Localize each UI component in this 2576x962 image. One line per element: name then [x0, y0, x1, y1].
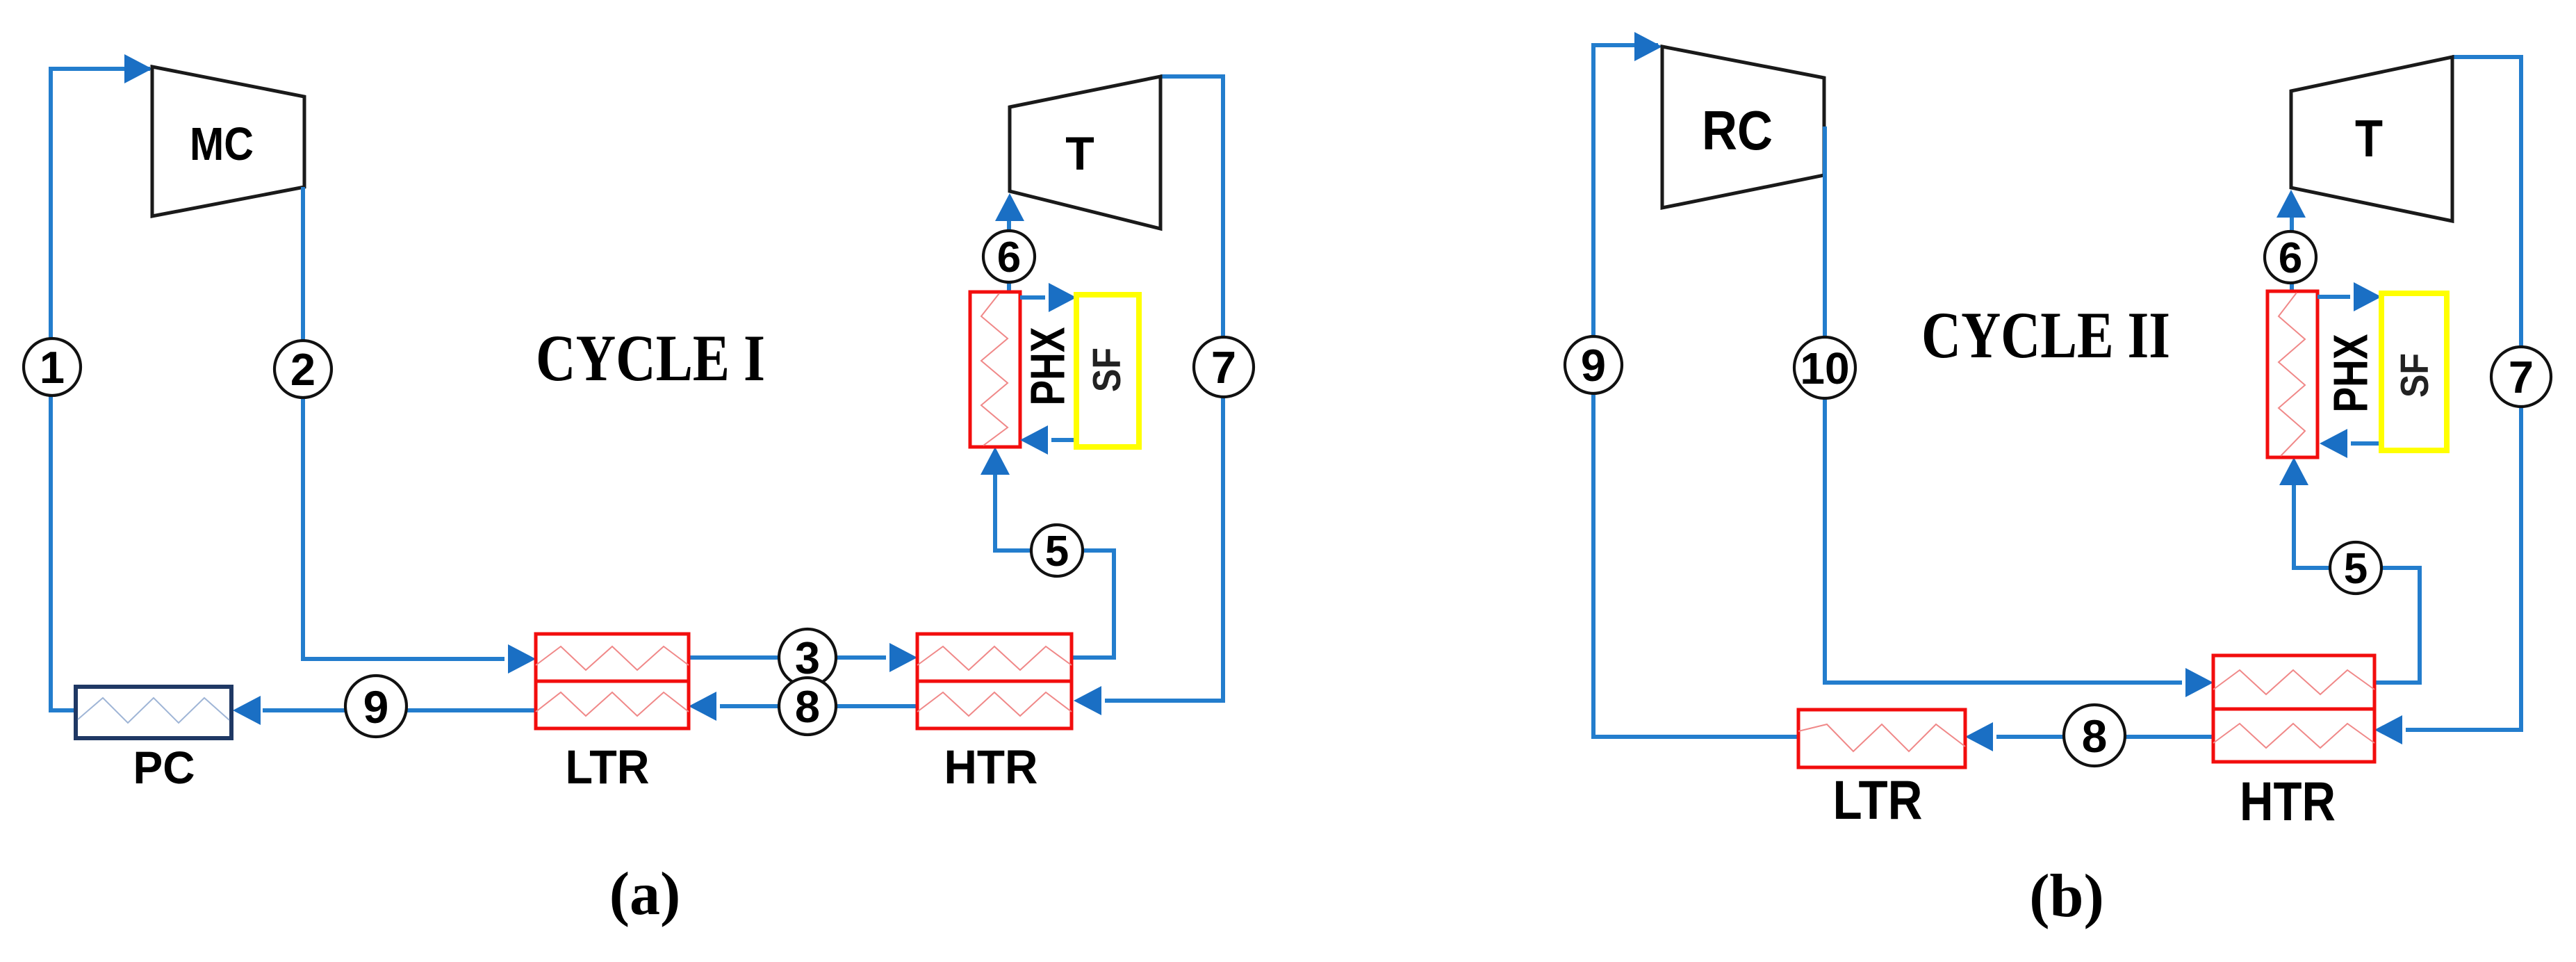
arrowhead into turbine	[995, 193, 1024, 221]
turbine T	[2291, 57, 2452, 221]
arrowhead into HTR	[889, 643, 917, 672]
node 5	[2330, 542, 2381, 594]
svg-text:3: 3	[795, 633, 820, 683]
wire HTR to LTR (stream 8)	[1996, 735, 2213, 739]
arrowhead into HTR left	[2185, 668, 2213, 697]
arrowhead into LTR right	[1965, 722, 1993, 751]
arrowhead into MC	[124, 54, 152, 83]
turbine T	[1010, 76, 1160, 229]
LTR coil	[1798, 724, 1965, 751]
node 7	[2491, 347, 2551, 407]
wire SF to PHX (return)	[1051, 438, 1076, 442]
HTR lower shell	[917, 681, 1072, 728]
precooler PC	[76, 687, 231, 738]
wire turbine to HTR (stream 7)	[2406, 57, 2521, 730]
arrowhead into PHX bottom	[2279, 457, 2308, 485]
svg-text:MC: MC	[190, 118, 254, 170]
svg-text:7: 7	[2509, 352, 2534, 402]
svg-text:PHX: PHX	[2323, 334, 2377, 412]
HTR bottom coil	[2213, 724, 2374, 748]
arrowhead into PC right	[233, 696, 261, 725]
svg-text:(a): (a)	[609, 861, 681, 928]
node 7	[1194, 337, 1254, 397]
arrowhead into PHX bottom	[981, 447, 1010, 475]
HTR top coil	[2213, 670, 2374, 694]
recuperator HTR	[2213, 655, 2374, 709]
svg-text:LTR: LTR	[566, 740, 650, 794]
wire LTR to PC (stream 9)	[263, 708, 536, 712]
svg-text:6: 6	[997, 234, 1021, 282]
arrowhead into PHX right	[2320, 429, 2347, 458]
svg-text:2: 2	[290, 344, 315, 395]
node 1	[24, 339, 81, 396]
svg-text:10: 10	[1800, 343, 1849, 393]
node 8	[779, 678, 836, 735]
arrowhead into turbine	[2276, 190, 2306, 218]
wire PHX to SF (hot out)	[1020, 295, 1045, 300]
arrowhead into HTR right	[1074, 686, 1101, 715]
wire RC outlet to HTR (stream 10)	[1825, 127, 2182, 683]
primary heat exchanger PHX	[970, 292, 1020, 447]
svg-text:SF: SF	[1085, 348, 1129, 392]
svg-text:8: 8	[2082, 710, 2108, 762]
wire PHX to SF (hot out)	[2317, 295, 2350, 299]
arrowhead into LTR right	[689, 692, 716, 721]
wire PC outlet to MC inlet (stream 1)	[51, 69, 150, 710]
wire HTR to PHX (stream 5)	[995, 453, 1114, 658]
node 6	[983, 231, 1035, 282]
svg-text:T: T	[2355, 109, 2383, 168]
svg-text:1: 1	[40, 342, 65, 393]
node 9	[1565, 336, 1622, 393]
node 2	[274, 341, 331, 398]
wire MC outlet to LTR (stream 2)	[303, 187, 504, 659]
svg-text:6: 6	[2279, 234, 2302, 282]
HTR lower shell	[2213, 709, 2374, 762]
svg-text:CYCLE I: CYCLE I	[536, 321, 765, 395]
arrowhead into PHX right	[1020, 425, 1048, 455]
arrowhead into RC	[1634, 32, 1662, 61]
node 6	[2265, 231, 2316, 283]
recuperator LTR (single)	[1798, 710, 1965, 767]
node 9	[345, 676, 407, 737]
svg-text:5: 5	[1045, 528, 1069, 576]
wire HTR to PHX (stream 5)	[2294, 464, 2420, 683]
recuperator HTR	[917, 634, 1072, 681]
compressor MC	[152, 67, 304, 216]
wire PHX to turbine (stream 6)	[2290, 196, 2294, 291]
arrowhead into SF	[2354, 282, 2381, 311]
node 8	[2064, 705, 2125, 766]
svg-text:9: 9	[363, 681, 389, 733]
arrowhead into HTR right	[2374, 715, 2402, 744]
svg-text:RC: RC	[1702, 99, 1773, 161]
arrowhead into SF	[1049, 283, 1076, 312]
HTR top coil	[917, 646, 1072, 670]
HTR bottom coil	[917, 692, 1072, 716]
wire LTR to HTR (stream 3)	[689, 655, 886, 660]
svg-text:HTR: HTR	[2240, 770, 2336, 832]
svg-text:9: 9	[1581, 340, 1606, 391]
wire HTR to LTR (stream 8)	[720, 704, 917, 708]
svg-text:(b): (b)	[2029, 863, 2104, 930]
LTR bottom coil	[536, 692, 689, 716]
LTR top coil	[536, 646, 689, 670]
svg-text:8: 8	[795, 681, 820, 732]
compressor RC	[1662, 47, 1824, 208]
wire SF to PHX (return)	[2351, 441, 2381, 446]
svg-text:PC: PC	[133, 742, 195, 793]
LTR lower shell	[536, 681, 689, 728]
svg-text:T: T	[1065, 127, 1094, 180]
svg-text:HTR: HTR	[944, 740, 1038, 794]
solar field SF	[2381, 293, 2447, 450]
wire turbine to HTR (stream 7)	[1105, 76, 1223, 701]
svg-text:5: 5	[2344, 545, 2368, 593]
wire LTR outlet to RC inlet (stream 9)	[1593, 45, 1798, 737]
solar field SF	[1076, 295, 1139, 447]
PC zigzag coil	[78, 698, 229, 723]
svg-text:CYCLE II: CYCLE II	[1921, 298, 2170, 372]
primary heat exchanger PHX	[2267, 291, 2317, 457]
PHX coil	[2279, 293, 2305, 456]
wire PHX to turbine (stream 6)	[1007, 199, 1011, 292]
svg-text:SF: SF	[2393, 353, 2437, 398]
wire RC outlet overlay on right edge	[1823, 127, 1827, 179]
PHX coil	[981, 293, 1008, 446]
node 10	[1794, 337, 1855, 398]
node 5	[1031, 525, 1083, 576]
svg-text:LTR: LTR	[1833, 769, 1923, 831]
recuperator LTR	[536, 634, 689, 681]
node 3	[779, 629, 836, 686]
arrowhead into LTR	[508, 644, 536, 674]
svg-text:PHX: PHX	[1020, 327, 1074, 405]
svg-text:7: 7	[1211, 342, 1236, 393]
